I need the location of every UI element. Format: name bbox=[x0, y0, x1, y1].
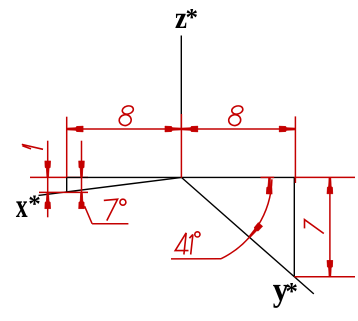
svg-text:*: * bbox=[186, 4, 199, 31]
svg-text:*: * bbox=[28, 191, 41, 218]
svg-text:*: * bbox=[285, 278, 298, 305]
svg-text:x: x bbox=[16, 188, 28, 225]
